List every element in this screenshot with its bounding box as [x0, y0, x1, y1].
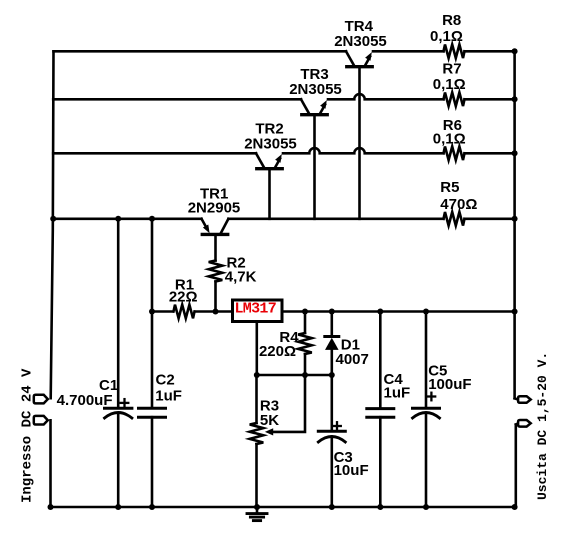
resistor R5 470 ohm	[444, 212, 465, 226]
C5 polarity +	[428, 393, 436, 401]
svg-text:5K: 5K	[260, 412, 279, 429]
wire: ADJ net horizontal	[257, 374, 332, 377]
svg-text:Uscita DC 1,5-20 V.: Uscita DC 1,5-20 V.	[535, 352, 550, 500]
wire: TR1 base lead down to R2	[214, 236, 217, 261]
capacitor C2 plates	[139, 407, 166, 410]
svg-text:R8: R8	[442, 12, 461, 29]
capacitor C1 plates (polarized)	[105, 407, 132, 410]
svg-text:0,1Ω: 0,1Ω	[430, 28, 463, 45]
capacitor C5 100uF branch	[425, 312, 428, 407]
wire: rail 4 (right segment, TR1 collector to bases of TR2-TR4, R5, to bus)	[229, 218, 444, 221]
resistor R8 0,1 ohm	[444, 45, 465, 59]
wire: right output bus (+)	[513, 51, 516, 398]
capacitor C3 10uF branch	[330, 375, 333, 430]
wire: TR3 base lead down to rail 4	[313, 116, 316, 219]
wire: left input bus (+)	[51, 51, 54, 398]
wire: left bus lower segment from input terminal	[49, 420, 52, 507]
output terminal + (upper right)	[515, 398, 519, 399]
wire: rail 2 (left segment to TR3)	[53, 98, 301, 101]
svg-text:2N2905: 2N2905	[188, 199, 241, 216]
svg-text:C2: C2	[156, 372, 175, 389]
wire: rail 2 (right segment with hop over TR4 base, R7, to bus)	[328, 94, 444, 99]
resistor R1 22 ohm	[174, 305, 195, 319]
wire: top rail 1 (right segment, TR4 emitter to R8 to bus)	[373, 50, 444, 53]
resistor R2 4,7K (vertical)	[209, 261, 223, 282]
wire: TR4 base lead down to rail 4	[358, 68, 361, 219]
svg-text:0,1Ω: 0,1Ω	[433, 76, 466, 93]
wire: C1 to ground rail	[117, 413, 120, 507]
svg-text:R7: R7	[442, 61, 461, 78]
wire: input node to R1	[152, 310, 173, 313]
wire: LM317 ADJ pin down	[255, 322, 258, 375]
wire: R1 to LM317	[195, 310, 233, 313]
wire: LM317 output to right bus	[282, 310, 515, 313]
wiper arrow	[265, 428, 273, 435]
wire: rail 4 / input rail (left segment to TR1)	[53, 218, 201, 221]
diode D1 1N4007	[325, 312, 339, 376]
svg-text:22Ω: 22Ω	[169, 288, 198, 305]
wire: top rail 1 (left segment to TR4)	[54, 50, 347, 53]
capacitor C1 4.700uF branch: lead from rail 4	[117, 219, 120, 407]
C3 polarity +	[333, 422, 341, 430]
wire: TR2 base lead down to rail 4	[268, 170, 271, 219]
svg-text:R5: R5	[440, 179, 459, 196]
potentiometer R3 5K	[255, 375, 258, 423]
capacitor C2 1uF branch: lead from rail 4 through LM317 input node	[151, 219, 154, 407]
svg-text:0,1Ω: 0,1Ω	[433, 131, 466, 148]
transistor TR1 (2N2905, PNP)	[202, 219, 229, 235]
input terminal + (upper left)	[34, 395, 48, 404]
capacitor C4 1uF branch	[379, 312, 382, 408]
svg-text:4007: 4007	[336, 351, 369, 368]
svg-text:2N3055: 2N3055	[289, 81, 342, 98]
svg-text:4,7K: 4,7K	[225, 269, 257, 286]
resistor R6 0,1 ohm	[444, 147, 465, 161]
wire: R3 wiper arm from ADJ node	[272, 375, 305, 432]
svg-text:100uF: 100uF	[428, 376, 471, 393]
transistor TR4 (2N3055, NPN)	[346, 51, 372, 66]
ground symbol	[247, 507, 267, 521]
resistor R4 220 ohm (vertical)	[304, 312, 307, 334]
svg-text:1uF: 1uF	[384, 385, 411, 402]
svg-text:470Ω: 470Ω	[440, 196, 477, 213]
IC U1 LM317 regulator box	[233, 300, 283, 322]
transistor TR2 (2N3055, NPN)	[256, 153, 282, 168]
output terminal - (lower right)	[516, 423, 518, 424]
transistor TR3 (2N3055, NPN)	[301, 99, 327, 114]
svg-text:1uF: 1uF	[155, 387, 182, 404]
wire: bottom ground rail	[51, 506, 515, 509]
svg-text:LM317: LM317	[235, 300, 277, 317]
C1 polarity +	[121, 399, 129, 407]
wire: rail 3 (right segment with hops over TR3 and TR4 bases, R6, to bus)	[283, 148, 444, 153]
svg-text:2N3055: 2N3055	[244, 135, 297, 152]
svg-text:220Ω: 220Ω	[259, 343, 296, 360]
svg-text:4.700uF: 4.700uF	[57, 392, 113, 409]
wire: right bus lower segment to output terminal	[514, 425, 517, 508]
svg-text:10uF: 10uF	[334, 462, 369, 479]
wire: rail 3 (left segment to TR2)	[53, 152, 256, 155]
resistor R7 0,1 ohm	[444, 93, 465, 107]
svg-text:Ingresso DC 24 V: Ingresso DC 24 V	[20, 368, 36, 503]
svg-text:2N3055: 2N3055	[334, 33, 387, 50]
wire: C2 to ground rail	[151, 417, 154, 507]
wire: R2 to LM317 input node	[214, 282, 217, 312]
input terminal - (lower left)	[34, 416, 48, 425]
